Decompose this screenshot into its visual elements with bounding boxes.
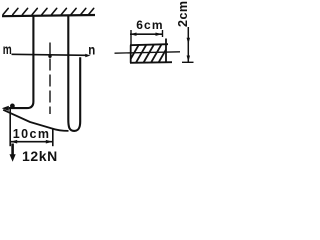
rod axis dashed line [49,43,51,115]
svg-text:m: m [3,41,12,57]
force arrow 12kN [11,144,14,155]
ceiling line [2,15,95,16]
svg-text:6cm: 6cm [136,18,164,32]
svg-text:n: n [88,41,95,57]
load line [9,109,11,147]
load pin dot [10,104,15,109]
dimension arrow left [10,140,17,144]
svg-text:12kN: 12kN [22,148,58,164]
hook inner curve [3,110,68,131]
dimension arrow right [46,140,53,144]
rod right edge with hook U-turn [68,16,80,131]
section axis line [115,52,181,53]
svg-text:10cm: 10cm [13,127,51,141]
section line right arrowhead [85,54,90,58]
dimension line 10cm [10,141,53,143]
extension tick bottom [182,61,194,63]
dimension arrow left [130,33,137,36]
dimension line 2cm [187,27,189,62]
hook tip arrow [2,106,9,111]
dimension line 6cm [130,33,162,35]
extension line left [130,30,132,46]
svg-text:2cm: 2cm [176,0,190,27]
cross-section rectangle [130,39,172,63]
fixed support hatching [3,8,94,14]
extension line right [162,30,164,37]
section hatching [128,44,177,64]
dimension extension line right [52,129,54,146]
dimension arrow lower [187,56,190,63]
centroid dot [48,55,51,58]
dimension arrow upper [187,38,190,45]
section line m-n [12,54,87,55]
dimension arrow right [156,33,163,36]
rod left edge with hook arm [9,16,34,109]
